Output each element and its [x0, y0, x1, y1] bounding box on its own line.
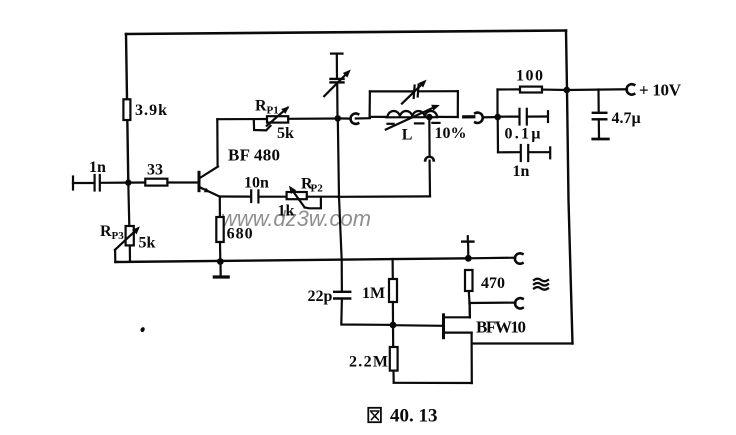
wire R7 to drain [468, 291, 471, 303]
wire tap down with hop [425, 117, 434, 196]
svg-text:40. 13: 40. 13 [390, 406, 438, 427]
wire source to right rail [472, 342, 573, 344]
wire R5 to node G [392, 302, 394, 325]
wire node D up to R4 [496, 90, 498, 118]
wire R6 down [392, 371, 394, 383]
svg-text:33: 33 [147, 162, 163, 179]
wire top supply rail [126, 31, 566, 35]
svg-text:3.9k: 3.9k [135, 102, 167, 119]
potentiometer RP2 1k [278, 176, 324, 220]
wire node T to connector J1 [338, 117, 351, 119]
caption figure 40.13 [368, 406, 437, 427]
wire tank left side [369, 91, 371, 116]
svg-text:100: 100 [516, 68, 543, 85]
node D junction [494, 114, 501, 121]
svg-text:680: 680 [227, 226, 253, 243]
trimmer capacitor C4 [402, 80, 427, 104]
wire output 2 [470, 302, 516, 305]
svg-text:1n: 1n [89, 159, 106, 176]
wire RP1 to node T [288, 117, 338, 120]
approx symbol RF [534, 279, 548, 290]
wire left rail upper [126, 34, 128, 183]
wire bus to R5 [392, 259, 394, 279]
svg-text:5k: 5k [277, 125, 294, 142]
resistor R4 100 [516, 68, 543, 93]
svg-text:P3: P3 [112, 230, 125, 242]
node V junction [564, 87, 571, 94]
node T junction [335, 115, 342, 122]
wire emitter line to tap [338, 195, 430, 198]
svg-text:5k: 5k [139, 235, 156, 252]
wire tank to connector J2 [464, 115, 474, 118]
svg-text:0.1µ: 0.1µ [505, 126, 541, 143]
transistor Q1 BF 480 [199, 146, 280, 197]
capacitor C7 4.7u [593, 90, 641, 140]
svg-text:BF 480: BF 480 [228, 146, 280, 165]
svg-text:10n: 10n [244, 174, 269, 191]
wire collector to RP1 [217, 118, 267, 120]
wire node B to R2 [128, 181, 145, 183]
wire input terminal to C1 [73, 182, 94, 184]
capacitor C6 1n [498, 117, 551, 180]
connector J4 [515, 253, 523, 263]
terminal post above R7 [462, 236, 473, 258]
wire C1 to node B [100, 182, 128, 184]
svg-text:R: R [100, 223, 112, 240]
svg-text:1n: 1n [513, 163, 530, 180]
svg-text:R: R [255, 98, 267, 115]
wire left rail lower [128, 183, 129, 226]
connector J1 [351, 113, 359, 123]
svg-text:L: L [402, 127, 413, 144]
svg-text:10%: 10% [435, 125, 467, 142]
capacitor C8 22p [308, 288, 351, 305]
jfet Q2 BFW10 [444, 303, 527, 383]
inductor L variable [386, 105, 440, 144]
node ground junction [217, 258, 224, 265]
wire 22p to node G [341, 299, 393, 325]
wire RP2 to mid rail [307, 196, 338, 198]
svg-text:BFW10: BFW10 [476, 317, 526, 336]
node tap junction 10% [426, 114, 467, 142]
svg-text:22p: 22p [308, 288, 333, 305]
wire node G to R6 [392, 325, 394, 347]
ground [214, 262, 228, 278]
wire tank top right [420, 90, 458, 92]
wire bottom ground bus [115, 258, 468, 262]
svg-text:1k: 1k [278, 203, 295, 220]
svg-text:2.2M: 2.2M [349, 354, 388, 371]
wire R3 to ground node [219, 242, 222, 262]
wire tank bottom right [436, 116, 457, 118]
potentiometer RP3 5k [100, 223, 156, 262]
wire R2 to base of Q1 [167, 181, 198, 183]
wire R6 bottom to source [394, 382, 472, 384]
node E junction [465, 255, 472, 262]
resistor R6 2.2M [349, 347, 398, 371]
ink speck [140, 326, 146, 332]
wire tank bottom left [370, 116, 386, 118]
potentiometer RP1 5k [254, 98, 294, 143]
capacitor C1 1n [89, 159, 106, 191]
connector J5 [515, 298, 523, 308]
wire tank top left [370, 90, 413, 92]
capacitor C2 10n [244, 174, 269, 202]
connector J3 +10V [627, 81, 682, 100]
resistor R7 470 [465, 270, 505, 292]
wire tank right side [457, 91, 459, 117]
svg-text:P2: P2 [311, 183, 324, 195]
node B junction [125, 179, 131, 185]
trimmer capacitor C3 with antenna terminal [324, 54, 351, 119]
resistor R2 33 [145, 162, 167, 186]
svg-text:1M: 1M [362, 285, 385, 302]
wire C2 to RP2 [259, 196, 287, 198]
wire mid rail down to 22p [338, 118, 342, 291]
svg-text:4.7µ: 4.7µ [612, 110, 641, 127]
input terminal [72, 177, 74, 190]
wire R4 to node V [542, 88, 567, 91]
wire right rail [566, 31, 573, 344]
resistor R3 680 [216, 217, 252, 243]
capacitor C5 0.1u [498, 109, 548, 143]
wire J2 to node D [483, 116, 498, 119]
connector J2 [475, 113, 483, 123]
wire node V to +10V terminal [567, 88, 627, 91]
svg-text:+ 10V: + 10V [639, 81, 682, 100]
svg-text:470: 470 [481, 275, 505, 292]
wire emitter to C2 [220, 195, 251, 197]
resistor R5 1M [362, 279, 397, 302]
wire emitter to R3 [219, 197, 221, 217]
resistor R1 3.9k [123, 99, 167, 120]
wire collector riser [216, 119, 219, 166]
wire J1 to tank [356, 117, 370, 120]
wire output 1 [468, 257, 515, 260]
wire node G to gate [393, 324, 442, 327]
node G junction [390, 322, 397, 329]
wire RP3 bottom to ground bus [129, 245, 131, 261]
svg-text:P1: P1 [267, 105, 279, 117]
